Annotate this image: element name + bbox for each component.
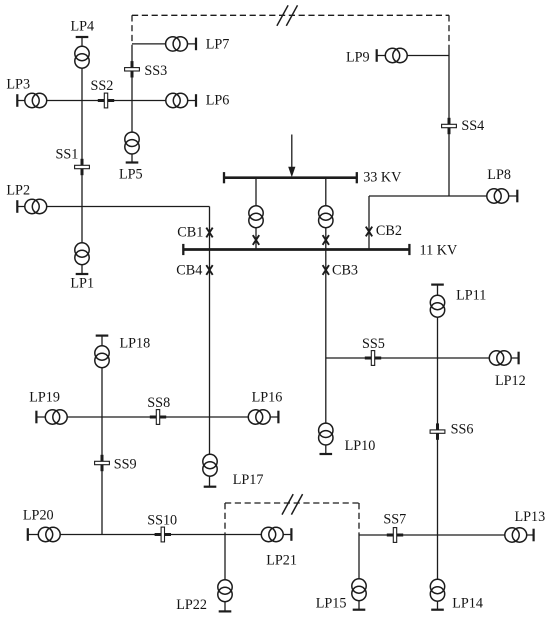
svg-text:LP3: LP3 — [6, 76, 30, 92]
svg-text:SS3: SS3 — [144, 63, 167, 79]
svg-text:SS8: SS8 — [147, 395, 170, 411]
svg-text:CB1: CB1 — [177, 224, 203, 240]
svg-text:LP22: LP22 — [176, 597, 207, 613]
svg-text:SS5: SS5 — [362, 336, 385, 352]
svg-text:LP21: LP21 — [266, 553, 297, 569]
svg-text:33 KV: 33 KV — [363, 169, 402, 185]
svg-text:LP10: LP10 — [345, 438, 376, 454]
svg-text:LP19: LP19 — [29, 389, 60, 405]
svg-text:LP15: LP15 — [316, 595, 347, 611]
svg-text:SS4: SS4 — [461, 118, 484, 134]
svg-text:LP18: LP18 — [120, 336, 151, 352]
svg-text:LP9: LP9 — [346, 49, 370, 65]
svg-text:CB2: CB2 — [376, 223, 402, 239]
svg-text:LP14: LP14 — [452, 595, 483, 611]
svg-text:CB4: CB4 — [176, 262, 202, 278]
svg-text:LP11: LP11 — [456, 287, 486, 303]
svg-text:CB3: CB3 — [332, 262, 358, 278]
svg-text:SS1: SS1 — [56, 147, 79, 163]
svg-text:LP4: LP4 — [71, 18, 95, 34]
svg-text:LP16: LP16 — [252, 389, 283, 405]
svg-text:LP20: LP20 — [23, 507, 54, 523]
svg-text:LP6: LP6 — [206, 92, 230, 108]
svg-text:LP5: LP5 — [119, 166, 143, 182]
svg-text:SS7: SS7 — [383, 512, 406, 528]
svg-text:LP7: LP7 — [206, 36, 230, 52]
svg-text:LP13: LP13 — [515, 509, 546, 525]
svg-text:LP2: LP2 — [6, 182, 30, 198]
svg-text:LP8: LP8 — [487, 167, 511, 183]
svg-text:SS10: SS10 — [147, 512, 177, 528]
svg-text:LP12: LP12 — [495, 373, 526, 389]
svg-text:SS9: SS9 — [114, 457, 137, 473]
svg-text:LP1: LP1 — [70, 275, 94, 291]
svg-text:11 KV: 11 KV — [420, 242, 458, 258]
svg-text:SS6: SS6 — [451, 422, 474, 438]
svg-text:SS2: SS2 — [91, 78, 114, 94]
svg-text:LP17: LP17 — [233, 472, 264, 488]
